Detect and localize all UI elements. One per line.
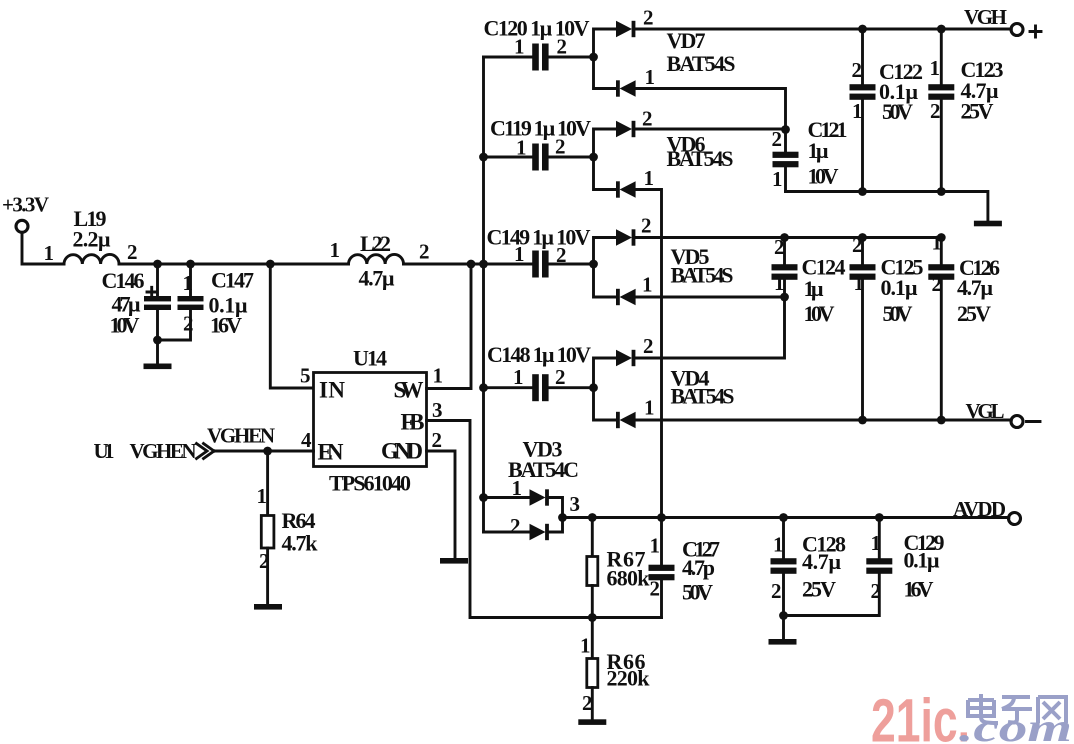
svg-text:2: 2 (852, 58, 863, 82)
svg-text:0.1µ: 0.1µ (881, 275, 918, 300)
logo dianziwang (968, 694, 1066, 723)
resistor R64 (257, 451, 319, 604)
capacitor C124 (772, 235, 846, 326)
svg-text:1: 1 (513, 365, 524, 389)
svg-text:2: 2 (582, 691, 593, 715)
capacitor C147 (158, 264, 255, 340)
svg-text:+3.3V: +3.3V (2, 193, 49, 217)
svg-text:2: 2 (259, 549, 270, 573)
ground R64 (254, 604, 282, 610)
node junction IN feed (266, 260, 275, 269)
inductor L19 (44, 206, 138, 265)
svg-text:1: 1 (514, 242, 525, 266)
diode pair VD5 BAT54S (594, 214, 734, 306)
node VGHEN input (94, 424, 276, 464)
svg-text:R64: R64 (282, 508, 316, 533)
svg-text:C149 1µ 10V: C149 1µ 10V (487, 225, 591, 250)
svg-text:2: 2 (932, 272, 943, 296)
node junction VGL C126 (937, 416, 946, 425)
wire VGH line (636, 28, 1012, 31)
wire VD7 pin1 to C121 top (636, 89, 786, 130)
svg-text:2: 2 (432, 428, 443, 452)
svg-text:4.7µ: 4.7µ (802, 549, 841, 574)
svg-text:4.7µ: 4.7µ (957, 275, 993, 300)
wire ground line C121/C122/C123 (786, 192, 988, 221)
svg-text:1: 1 (516, 136, 527, 160)
svg-text:1: 1 (644, 166, 655, 190)
svg-text:1µ: 1µ (808, 138, 829, 163)
capacitor C121 (772, 117, 848, 192)
node junction bus C148 (479, 383, 488, 392)
diode pair VD7 BAT54S (594, 6, 736, 97)
svg-text:2: 2 (771, 579, 782, 603)
logo 21ic.com (871, 687, 970, 744)
node junction C119 out (589, 153, 598, 162)
wire VD6 pin1 down to AVDD (636, 190, 662, 518)
wire charge-pump bus (482, 57, 485, 532)
node junction bus C119 (479, 153, 488, 162)
svg-text:10V: 10V (808, 164, 839, 189)
node junction gnd C123 (937, 187, 946, 196)
wire VD5 pin2 to C124/C125/C126 tops (636, 236, 942, 239)
wire VD5 pin1 to C124 bottom (636, 296, 785, 299)
wire GND pin (427, 451, 456, 558)
svg-text:2: 2 (556, 243, 567, 267)
svg-text:GND: GND (381, 439, 423, 464)
wire IN feed (270, 264, 313, 388)
wire VGL line (636, 419, 1012, 422)
terminal VGH (964, 5, 1041, 37)
svg-text:U1: U1 (94, 439, 115, 463)
svg-text:2: 2 (419, 240, 430, 264)
svg-text:4: 4 (301, 428, 312, 452)
svg-text:U14: U14 (353, 346, 387, 371)
wire VD6 pin2 to C121 (636, 128, 786, 131)
svg-text:C120 1µ 10V: C120 1µ 10V (484, 16, 590, 41)
svg-text:VGL: VGL (966, 399, 1005, 423)
node junction AVDD C128 (779, 513, 788, 522)
svg-text:VGH: VGH (964, 5, 1007, 29)
capacitor C125 (850, 233, 924, 420)
node junction VD3 out (558, 513, 567, 522)
svg-text:1: 1 (645, 65, 656, 89)
node junction C149 out (589, 260, 598, 269)
node junction bus VD3 (479, 493, 488, 502)
svg-text:4.7p: 4.7p (682, 555, 715, 580)
wire L19 to L22 (119, 263, 349, 266)
node junction VGL C125 (858, 416, 867, 425)
node junction C124 top (780, 233, 789, 242)
node junction VGH C122 (858, 25, 867, 34)
node junction gnd C122 (858, 187, 867, 196)
svg-text:SW: SW (394, 378, 424, 403)
logo .com (959, 705, 1072, 744)
svg-text:3: 3 (432, 398, 443, 422)
svg-text:1: 1 (512, 476, 523, 500)
svg-text:2.2µ: 2.2µ (73, 227, 111, 252)
node junction C146 (153, 260, 162, 269)
capacitor C126 (928, 231, 1000, 421)
svg-text:21ic.: 21ic. (871, 687, 970, 744)
svg-text:1: 1 (930, 56, 941, 80)
capacitor C146 (102, 264, 172, 340)
svg-text:680k: 680k (607, 566, 651, 591)
svg-text:4.7µ: 4.7µ (359, 266, 395, 291)
svg-text:50V: 50V (883, 301, 913, 326)
svg-text:10V: 10V (110, 313, 140, 338)
capacitor C123 (928, 29, 1003, 192)
svg-text:50V: 50V (882, 99, 913, 124)
svg-text:16V: 16V (904, 577, 934, 602)
svg-text:1: 1 (580, 634, 591, 658)
svg-text:1: 1 (852, 99, 863, 123)
svg-text:0.1µ: 0.1µ (904, 548, 940, 573)
svg-text:2: 2 (643, 6, 654, 30)
svg-text:2: 2 (772, 127, 783, 151)
ground C146/C147 (156, 340, 159, 364)
op-amp U14 TPS61040 (300, 346, 443, 496)
svg-text:2: 2 (510, 514, 521, 538)
svg-text:VGHEN: VGHEN (130, 439, 197, 463)
svg-text:4.7k: 4.7k (282, 531, 319, 556)
node junction bus/main line (479, 260, 488, 269)
node junction C126 top (937, 233, 946, 242)
svg-text:2: 2 (930, 99, 941, 123)
svg-text:1: 1 (871, 531, 882, 555)
ground top right (974, 221, 1002, 227)
svg-text:L22: L22 (360, 231, 391, 256)
node junction C146/C147 ground (153, 336, 162, 345)
svg-text:AVDD: AVDD (953, 497, 1006, 521)
svg-text:2: 2 (555, 365, 566, 389)
node junction R64 (263, 447, 272, 456)
node junction C148 out (589, 383, 598, 392)
svg-text:1: 1 (773, 533, 784, 557)
svg-text:1: 1 (183, 271, 194, 295)
wire VD4 pin2 up to C124 bottom (636, 297, 785, 358)
wire +3.3V stem to L19 (22, 233, 64, 265)
node junction AVDD/VD6 line (657, 513, 666, 522)
svg-text:2: 2 (555, 135, 566, 159)
node junction AVDD R67 (588, 513, 597, 522)
svg-text:220k: 220k (607, 666, 651, 691)
svg-text:5: 5 (300, 364, 311, 388)
node junction C124 bottom (780, 293, 789, 302)
capacitor C120 (484, 16, 594, 71)
ground GND pin (440, 558, 468, 564)
capacitor C119 (484, 116, 594, 171)
svg-text:10V: 10V (804, 301, 835, 326)
capacitor C149 (487, 225, 594, 278)
svg-text:1: 1 (772, 167, 783, 191)
svg-text:BAT54S: BAT54S (671, 384, 735, 409)
inductor L22 (330, 231, 430, 291)
capacitor C148 (484, 342, 594, 401)
ground C128/C129 (782, 616, 785, 640)
svg-text:2: 2 (641, 214, 652, 238)
svg-text:IN: IN (319, 378, 345, 403)
svg-text:25V: 25V (802, 577, 836, 602)
svg-text:1: 1 (330, 238, 341, 262)
svg-text:2: 2 (183, 312, 194, 336)
capacitor C127 (649, 518, 721, 618)
svg-text:1: 1 (854, 271, 865, 295)
svg-text:BAT54S: BAT54S (667, 146, 734, 171)
svg-text:FB: FB (401, 410, 425, 435)
svg-text:1: 1 (642, 273, 653, 297)
svg-text:TPS61040: TPS61040 (329, 471, 411, 496)
svg-text:VGHEN: VGHEN (207, 424, 275, 448)
svg-text:1: 1 (257, 484, 268, 508)
capacitor C129 (784, 518, 945, 616)
node junction SW (467, 260, 476, 269)
node junction C147 (186, 260, 195, 269)
svg-text:.com: .com (959, 705, 1072, 744)
svg-text:1: 1 (644, 396, 655, 420)
svg-text:25V: 25V (957, 301, 991, 326)
capacitor C128 (771, 518, 847, 616)
svg-text:2: 2 (650, 577, 661, 601)
svg-text:1: 1 (514, 35, 525, 59)
node junction C121 top (781, 125, 790, 134)
svg-text:1: 1 (44, 241, 55, 265)
svg-text:EN: EN (318, 440, 344, 465)
terminal VGL (966, 399, 1041, 428)
svg-text:2: 2 (557, 35, 568, 59)
svg-text:25V: 25V (961, 99, 994, 124)
svg-text:BAT54S: BAT54S (667, 51, 736, 76)
node junction C120 out (589, 53, 598, 62)
svg-text:50V: 50V (682, 580, 713, 605)
node junction feedback (588, 613, 597, 622)
svg-text:3: 3 (570, 492, 581, 516)
resistor R67 (587, 518, 650, 618)
svg-text:BAT54S: BAT54S (671, 263, 734, 288)
svg-text:2: 2 (871, 579, 882, 603)
svg-text:C146: C146 (102, 268, 145, 293)
node junction C125 top (858, 233, 867, 242)
svg-text:2: 2 (127, 240, 138, 264)
svg-text:C147: C147 (211, 268, 254, 293)
diode pair VD3 BAT54C (484, 437, 581, 541)
wire EN (214, 450, 314, 453)
svg-text:1: 1 (650, 534, 661, 558)
node junction C128 bottom (779, 611, 788, 620)
svg-text:VD7: VD7 (667, 28, 706, 53)
resistor R66 (580, 618, 650, 720)
svg-text:1µ: 1µ (804, 276, 824, 301)
wire L22 to C149 (404, 263, 533, 266)
capacitor C122 (850, 29, 924, 192)
wire FB pin down to feedback node (427, 421, 662, 618)
wire AVDD line (563, 516, 1009, 519)
wire SW pin to main line (427, 264, 472, 389)
svg-text:1: 1 (433, 364, 444, 388)
svg-text:2: 2 (643, 334, 654, 358)
node junction AVDD C129 (875, 513, 884, 522)
svg-text:16V: 16V (210, 313, 242, 338)
ground R66 (578, 719, 606, 725)
terminal +3.3V (2, 193, 49, 233)
svg-text:C148 1µ 10V: C148 1µ 10V (487, 342, 591, 367)
svg-text:1: 1 (774, 271, 785, 295)
diode pair VD6 BAT54S (594, 107, 734, 198)
terminal AVDD (953, 497, 1021, 525)
node junction VGH C123 (937, 25, 946, 34)
svg-text:C119 1µ 10V: C119 1µ 10V (490, 116, 591, 141)
svg-text:2: 2 (642, 107, 653, 131)
diode pair VD4 BAT54S (594, 334, 735, 428)
